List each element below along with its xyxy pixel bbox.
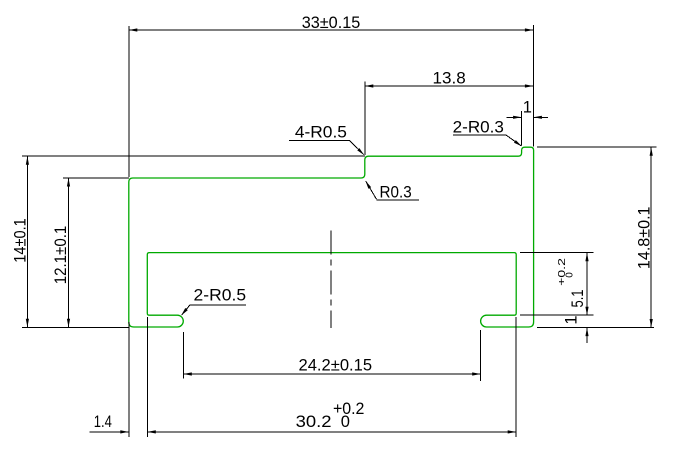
svg-text:24.2±0.15: 24.2±0.15	[299, 356, 373, 374]
svg-text:13.8: 13.8	[433, 70, 466, 88]
svg-text:2-R0.5: 2-R0.5	[194, 287, 247, 305]
svg-text:1.4: 1.4	[94, 413, 112, 431]
svg-text:+0.2: +0.2	[557, 257, 568, 285]
svg-text:0: 0	[341, 413, 350, 431]
svg-text:1: 1	[523, 99, 532, 117]
svg-text:12.1±0.1: 12.1±0.1	[52, 226, 70, 285]
svg-text:30.2: 30.2	[296, 413, 332, 431]
svg-text:R0.3: R0.3	[380, 184, 412, 202]
svg-text:5.1: 5.1	[569, 290, 587, 308]
svg-text:0: 0	[565, 272, 576, 278]
svg-text:33±0.15: 33±0.15	[302, 14, 361, 32]
svg-text:2-R0.3: 2-R0.3	[453, 118, 504, 136]
svg-text:14.8±0.1: 14.8±0.1	[636, 207, 654, 270]
svg-text:4-R0.5: 4-R0.5	[295, 123, 347, 141]
svg-text:1: 1	[563, 315, 581, 324]
svg-text:14±0.1: 14±0.1	[12, 218, 30, 263]
